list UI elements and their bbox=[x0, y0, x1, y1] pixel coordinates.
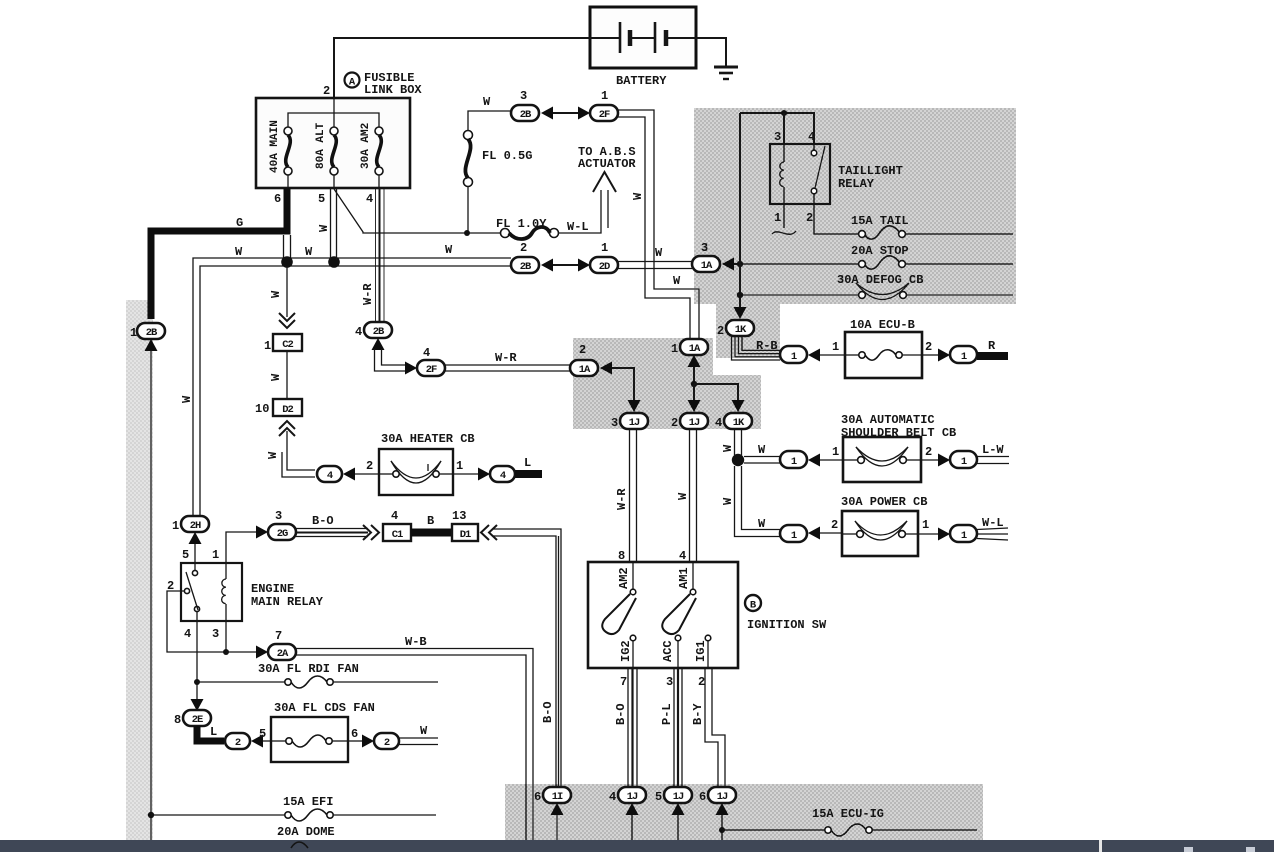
svg-text:2G: 2G bbox=[277, 528, 288, 540]
svg-text:4: 4 bbox=[391, 509, 398, 523]
wire: pin 4 triple down to connector 2B bbox=[376, 188, 385, 322]
wire between 2B(2) and 2D(1) bbox=[553, 264, 578, 266]
connector 1J (5) bbox=[655, 787, 692, 804]
wire: relay pin 3 down to 2A row bbox=[225, 621, 227, 652]
svg-text:1: 1 bbox=[832, 340, 839, 354]
svg-text:2: 2 bbox=[323, 84, 330, 98]
wire pair: 1K(4) down to shoulder-belt node bbox=[734, 429, 736, 455]
connector 1 (power CB right) bbox=[950, 525, 977, 542]
fusible link 40A MAIN bbox=[269, 120, 292, 188]
heater CB element bbox=[379, 461, 453, 483]
svg-text:4: 4 bbox=[184, 627, 191, 641]
arrow right into connector 2 bbox=[362, 735, 374, 748]
arrow left into connector 1A(2) bbox=[600, 362, 612, 375]
fusible link box A bbox=[256, 98, 410, 188]
svg-text:2: 2 bbox=[579, 343, 586, 357]
svg-text:IG2: IG2 bbox=[619, 640, 633, 662]
svg-text:4: 4 bbox=[500, 470, 506, 482]
ignition sw ACC terminal bbox=[661, 635, 681, 668]
svg-text:2: 2 bbox=[698, 675, 705, 689]
svg-text:1: 1 bbox=[961, 456, 967, 468]
svg-text:1: 1 bbox=[172, 519, 179, 533]
svg-text:W: W bbox=[269, 290, 283, 298]
wire: arrow to CDS fan box bbox=[263, 740, 271, 742]
toolbar glyph fragment 2 bbox=[1246, 847, 1255, 852]
engine main relay coil bbox=[222, 563, 226, 621]
node: W bus junction to pin 5 branch bbox=[328, 256, 340, 268]
wire B-Y: IG1 pin 2 down with jog to 1J(6) bbox=[705, 668, 718, 787]
arrow left into connector 4 bbox=[343, 468, 355, 481]
fusible link FL 1.0Y bbox=[501, 227, 559, 239]
fusible link 80A ALT bbox=[315, 122, 338, 188]
wire: arrow to ECU-B box bbox=[820, 354, 845, 356]
svg-text:30A AUTOMATIC: 30A AUTOMATIC bbox=[841, 413, 935, 427]
connector 2H (1) bbox=[172, 516, 209, 533]
arrow left into 1A(3) bbox=[722, 258, 734, 271]
wire G: thick wire from pin 6 to connector 2B bbox=[151, 188, 287, 319]
wire: D1 to B-O vertical (pair) down to 1I bbox=[493, 529, 561, 786]
wire: box to right arrow (power CB) bbox=[918, 533, 938, 535]
30A HEATER CB box bbox=[379, 449, 453, 495]
wire: relay pin 2 to 15A TAIL fuse bbox=[814, 204, 859, 234]
svg-text:3: 3 bbox=[701, 241, 708, 255]
svg-text:3: 3 bbox=[212, 627, 219, 641]
svg-text:1: 1 bbox=[456, 459, 463, 473]
svg-text:3: 3 bbox=[666, 675, 673, 689]
wire: box to right arrow (shoulder belt) bbox=[921, 459, 938, 461]
wire below 1I to bar bbox=[556, 815, 558, 840]
ignition switch box B bbox=[588, 562, 738, 668]
svg-text:1: 1 bbox=[264, 339, 271, 353]
circled B marker bbox=[745, 595, 761, 612]
svg-text:ENGINE: ENGINE bbox=[251, 582, 294, 596]
connector 2 (CDS fan left) bbox=[225, 733, 250, 749]
svg-text:TAILLIGHT: TAILLIGHT bbox=[838, 164, 903, 178]
svg-text:B-O: B-O bbox=[312, 514, 334, 528]
arrow right into 2F(1) bbox=[578, 107, 590, 120]
connector 2A (7) bbox=[268, 629, 296, 660]
svg-text:L: L bbox=[210, 725, 217, 739]
connector C2 (1) bbox=[264, 334, 302, 353]
svg-text:2: 2 bbox=[806, 211, 813, 225]
wire pair: D2 down and right to heater CB connector 4 bbox=[287, 431, 315, 470]
svg-text:SHOULDER BELT CB: SHOULDER BELT CB bbox=[841, 426, 956, 440]
breaker element (power CB) bbox=[842, 521, 918, 540]
svg-text:40A MAIN: 40A MAIN bbox=[269, 120, 281, 173]
ground (battery negative) bbox=[714, 67, 738, 79]
svg-text:1A: 1A bbox=[579, 364, 591, 376]
svg-text:5: 5 bbox=[318, 192, 325, 206]
arrow left into connector 1 (power CB) bbox=[808, 527, 820, 540]
connector 2B (2) bbox=[511, 241, 539, 273]
svg-text:80A ALT: 80A ALT bbox=[315, 122, 327, 169]
wire battery positive to ground drop bbox=[696, 38, 726, 67]
svg-text:1J: 1J bbox=[689, 417, 700, 429]
connector 2F (1) bbox=[590, 89, 618, 121]
engine main relay switch contacts bbox=[181, 563, 200, 621]
svg-text:8: 8 bbox=[174, 713, 181, 727]
svg-text:2F: 2F bbox=[426, 364, 437, 376]
svg-text:2: 2 bbox=[366, 459, 373, 473]
connector 2 (CDS fan right) bbox=[374, 733, 399, 749]
svg-text:1: 1 bbox=[212, 548, 219, 562]
connector C1 (4) bbox=[383, 509, 411, 541]
svg-text:R: R bbox=[988, 339, 996, 353]
svg-text:2: 2 bbox=[831, 518, 838, 532]
connector D2 (10) bbox=[255, 399, 302, 416]
svg-text:W-R: W-R bbox=[361, 283, 375, 305]
arrow up into connector 2B bbox=[145, 339, 158, 351]
connector 2D (1) bbox=[590, 241, 618, 273]
shaded region: bottom connector strip bbox=[505, 784, 983, 840]
arrow up into 1J(5) bbox=[672, 803, 685, 815]
svg-text:W: W bbox=[269, 373, 283, 381]
wire: relay top bus bbox=[740, 113, 814, 144]
wire W: pair right of CDS connector bbox=[399, 737, 438, 739]
svg-text:4: 4 bbox=[366, 192, 373, 206]
wire below 1J(4) to bar bbox=[631, 815, 633, 840]
connector 1 (shoulder belt left) bbox=[780, 451, 807, 468]
svg-text:1: 1 bbox=[130, 326, 137, 340]
wire: pin 5 pair down to W bus bbox=[330, 188, 332, 260]
svg-text:2B: 2B bbox=[520, 261, 532, 273]
svg-text:W: W bbox=[758, 517, 766, 531]
wire R: thick stub bbox=[977, 352, 1008, 360]
toolbar glyph fragment 1 bbox=[1184, 847, 1193, 852]
svg-text:W: W bbox=[420, 724, 428, 738]
svg-text:A: A bbox=[349, 77, 356, 89]
arrow up into connector 2H bbox=[189, 532, 202, 544]
fuse 20A STOP bbox=[859, 256, 1013, 269]
svg-text:AM2: AM2 bbox=[617, 567, 631, 589]
wire W-L: three lines stub right bbox=[977, 528, 1008, 530]
arrow right into connector 1 (shoulder belt right) bbox=[938, 454, 950, 467]
svg-text:2: 2 bbox=[235, 737, 241, 749]
svg-text:1K: 1K bbox=[733, 417, 745, 429]
svg-text:W: W bbox=[631, 192, 645, 200]
svg-text:FL 1.0Y: FL 1.0Y bbox=[496, 217, 547, 231]
connector 1K (2) bbox=[717, 320, 754, 338]
svg-text:2B: 2B bbox=[373, 326, 385, 338]
wire pair: node down to power CB elbow bbox=[735, 466, 781, 537]
arrow down into connector 1K(4) bbox=[732, 400, 745, 412]
svg-text:15A TAIL: 15A TAIL bbox=[851, 214, 909, 228]
svg-text:1K: 1K bbox=[735, 324, 747, 336]
svg-text:B-O: B-O bbox=[541, 701, 555, 723]
svg-text:G: G bbox=[236, 216, 243, 230]
wire: branch down to relay pin 3 bbox=[783, 113, 785, 144]
svg-text:1: 1 bbox=[832, 445, 839, 459]
svg-text:2A: 2A bbox=[277, 648, 289, 660]
svg-text:AM1: AM1 bbox=[677, 567, 691, 589]
wire: relay pin 5 up to 2H bbox=[194, 544, 196, 563]
connector 2G (3) bbox=[268, 509, 296, 540]
svg-text:W: W bbox=[266, 451, 280, 459]
wire B-O: IG2 pin 7 down to 1J(4) bbox=[628, 668, 637, 786]
30A FL CDS FAN box bbox=[271, 717, 348, 762]
connector 2B (1) left bbox=[130, 323, 165, 340]
svg-text:W: W bbox=[235, 245, 243, 259]
wire: W bus lower line bbox=[200, 266, 511, 517]
wire: relay pin 1 to connector 2G bbox=[226, 532, 256, 563]
wire: 15A EFI row bbox=[151, 809, 436, 821]
svg-text:30A FL RDI FAN: 30A FL RDI FAN bbox=[258, 662, 359, 676]
svg-text:20A STOP: 20A STOP bbox=[851, 244, 909, 258]
wire: top W link to connector 2B(3) bbox=[468, 111, 511, 130]
node: relay top bus / coil branch bbox=[781, 110, 787, 116]
wire R-B: 1K(2) bundle to connector 1 (ECU-B feed) bbox=[732, 336, 781, 360]
svg-text:4: 4 bbox=[355, 325, 362, 339]
connector 2E (8) bbox=[174, 710, 211, 727]
wire: link from thick G elbow down to W bus junction bbox=[283, 235, 285, 258]
battery internal symbol plates bbox=[590, 22, 696, 53]
arrow left into 2B(2) bbox=[541, 259, 553, 272]
svg-text:4: 4 bbox=[808, 130, 815, 144]
connector 1A (3) bbox=[692, 241, 720, 272]
svg-text:1: 1 bbox=[961, 530, 967, 542]
node: junction of left vertical with 15A EFI row bbox=[148, 812, 154, 818]
wire: 2A row from relay junction to arrow bbox=[226, 651, 256, 653]
svg-text:7: 7 bbox=[275, 629, 282, 643]
svg-text:W: W bbox=[758, 443, 766, 457]
svg-text:5: 5 bbox=[259, 727, 266, 741]
svg-text:6: 6 bbox=[534, 790, 541, 804]
svg-text:3: 3 bbox=[520, 89, 527, 103]
wire W pair: 1J(2) down to ignition AM1 pin 4 bbox=[689, 429, 691, 562]
wire: ECU-B box to right arrow bbox=[922, 354, 938, 356]
arrow up into 1J(4) bbox=[626, 803, 639, 815]
svg-text:1: 1 bbox=[774, 211, 781, 225]
arrow left into connector 1 bbox=[808, 349, 820, 362]
taillight relay coil bbox=[780, 144, 784, 204]
arrow right into connector 4 bbox=[478, 468, 490, 481]
svg-text:2: 2 bbox=[925, 445, 932, 459]
shaded region: tab below taillight block around 1K bbox=[716, 304, 780, 358]
svg-text:30A AM2: 30A AM2 bbox=[360, 123, 372, 169]
svg-text:D1: D1 bbox=[460, 529, 471, 541]
svg-text:3: 3 bbox=[275, 509, 282, 523]
arrow right into connector 2F(4) bbox=[405, 362, 417, 375]
wire W-R pair: 2F(4) to 1A(2) bbox=[445, 364, 570, 366]
svg-text:4: 4 bbox=[609, 790, 616, 804]
chevrons into C1 bbox=[363, 525, 379, 540]
svg-text:15A ECU-IG: 15A ECU-IG bbox=[812, 807, 884, 821]
arrow left into connector 2 bbox=[251, 735, 263, 748]
svg-text:W: W bbox=[721, 497, 735, 505]
fusible link box internal bus bbox=[288, 113, 379, 130]
svg-text:30A HEATER CB: 30A HEATER CB bbox=[381, 432, 475, 446]
wire W-B: 2A to right then down page (pair) bbox=[296, 649, 533, 841]
wire: heater CB to right connector 4 bbox=[453, 473, 478, 475]
circled A marker bbox=[345, 73, 360, 89]
wire B: thick black C1 to D1 bbox=[411, 529, 452, 537]
svg-text:2: 2 bbox=[717, 324, 724, 338]
wire: arrow to shoulder belt CB box bbox=[820, 459, 843, 461]
30A POWER CB box bbox=[842, 511, 918, 556]
bottom toolbar bar bbox=[0, 840, 1274, 852]
connector 2B (4) bbox=[355, 322, 392, 339]
wire below 1J(6) to ECU-IG junction bbox=[721, 815, 723, 840]
svg-text:B: B bbox=[750, 600, 757, 612]
svg-text:1: 1 bbox=[671, 342, 678, 356]
ignition sw IG2 terminal bbox=[619, 635, 636, 668]
svg-text:P-L: P-L bbox=[660, 703, 674, 725]
svg-text:W: W bbox=[673, 274, 681, 288]
toolbar divider bbox=[1099, 840, 1102, 852]
connector D1 (13) bbox=[452, 509, 478, 541]
svg-text:R-B: R-B bbox=[756, 339, 778, 353]
svg-text:1: 1 bbox=[791, 456, 797, 468]
arrow down into connector 1J(2) bbox=[688, 400, 701, 412]
svg-text:B-Y: B-Y bbox=[691, 703, 705, 725]
svg-text:W-R: W-R bbox=[495, 351, 517, 365]
svg-text:L-W: L-W bbox=[982, 443, 1004, 457]
shaded region: taillight relay / fuse block (top right) bbox=[694, 108, 1016, 304]
wire: 30A FL RDI FAN row bbox=[197, 676, 438, 688]
svg-text:13: 13 bbox=[452, 509, 466, 523]
arrow right into connector 1 (ECU-B right) bbox=[938, 349, 950, 362]
svg-text:W-L: W-L bbox=[982, 516, 1004, 530]
arrow down into connector 2E bbox=[191, 699, 204, 711]
engine main relay box bbox=[181, 563, 242, 621]
arrow down into connector 1J(3) bbox=[628, 400, 641, 412]
arrow up into 1I(6) bbox=[551, 803, 564, 815]
svg-text:10A ECU-B: 10A ECU-B bbox=[850, 318, 915, 332]
svg-text:15A EFI: 15A EFI bbox=[283, 795, 333, 809]
wire pair: 2B(4) elbow to 2F(4) bbox=[375, 349, 406, 371]
wire battery to fusible link box pin 2 bbox=[334, 38, 590, 98]
svg-text:4: 4 bbox=[715, 416, 722, 430]
wire: relay pin 4 down through RDI FAN row to 2E bbox=[196, 621, 198, 701]
wire: diagonal from pin 5 to FL 1.0Y row bbox=[334, 189, 500, 233]
svg-text:FL 0.5G: FL 0.5G bbox=[482, 149, 532, 163]
node: ECU-IG row junction bbox=[719, 827, 725, 833]
node: junction pin4 wire / RDI FAN row bbox=[194, 679, 200, 685]
svg-text:10: 10 bbox=[255, 402, 269, 416]
svg-text:ACC: ACC bbox=[661, 640, 675, 662]
connector 1I (6) bbox=[534, 787, 571, 804]
30A AUTOMATIC SHOULDER BELT CB box bbox=[843, 437, 921, 482]
svg-text:2: 2 bbox=[671, 416, 678, 430]
fusible link FL 0.5G bbox=[464, 131, 473, 187]
svg-text:W: W bbox=[305, 245, 313, 259]
node: W bus junction to C2 branch bbox=[281, 256, 293, 268]
svg-text:5: 5 bbox=[655, 790, 662, 804]
node: junction pin3 / 2A row bbox=[223, 649, 229, 655]
wire: relay pin 2 loop to 2A row bbox=[167, 591, 226, 652]
wire: C2 to D2 bbox=[286, 351, 288, 399]
svg-text:1: 1 bbox=[601, 89, 608, 103]
connector 1 (ECU-B right) bbox=[950, 346, 977, 363]
CDS fan fuse element bbox=[271, 735, 348, 747]
battery U? : BATTERY box bbox=[590, 7, 696, 68]
svg-text:6: 6 bbox=[274, 192, 281, 206]
svg-text:L: L bbox=[524, 456, 531, 470]
arrow right into connector 2G bbox=[256, 526, 268, 539]
svg-text:1: 1 bbox=[791, 530, 797, 542]
wire L-W pair: stub right bbox=[977, 456, 1009, 458]
svg-text:30A FL CDS FAN: 30A FL CDS FAN bbox=[274, 701, 375, 715]
connector 1 (ECU-B left) bbox=[780, 346, 807, 363]
connector 1 (shoulder belt right) bbox=[950, 451, 977, 468]
wire: CDS box to right connector 2 bbox=[348, 740, 362, 742]
svg-text:2: 2 bbox=[925, 340, 932, 354]
connector 1K (4) bbox=[715, 413, 752, 430]
arrow up into 1J(6) bbox=[716, 803, 729, 815]
connector 1 (power CB left) bbox=[780, 525, 807, 542]
svg-text:B: B bbox=[427, 514, 434, 528]
svg-text:W: W bbox=[721, 444, 735, 452]
svg-text:W-B: W-B bbox=[405, 635, 427, 649]
svg-text:6: 6 bbox=[699, 790, 706, 804]
svg-text:1J: 1J bbox=[717, 791, 728, 803]
ignition sw IG1 terminal bbox=[694, 635, 711, 668]
arrow left into 2B(3) bbox=[541, 107, 553, 120]
svg-text:W: W bbox=[317, 224, 331, 232]
fuse element ECU-B bbox=[845, 350, 922, 361]
svg-text:IGNITION SW: IGNITION SW bbox=[747, 618, 827, 632]
svg-text:2E: 2E bbox=[192, 714, 203, 726]
arrow right into connector 2A bbox=[256, 646, 268, 659]
ignition sw AM1 terminal and blade bbox=[662, 562, 696, 634]
svg-text:4: 4 bbox=[423, 346, 430, 360]
svg-text:1J: 1J bbox=[629, 417, 640, 429]
svg-text:2H: 2H bbox=[190, 520, 201, 532]
wire: W branch from bus down to C2 bbox=[286, 266, 288, 317]
svg-text:RELAY: RELAY bbox=[838, 177, 875, 191]
svg-text:3: 3 bbox=[611, 416, 618, 430]
taillight relay box bbox=[770, 144, 830, 204]
svg-text:1: 1 bbox=[601, 241, 608, 255]
wire: 1A(1) down to cluster node bbox=[693, 367, 695, 384]
wire W-L: FL 1.0Y to ABS actuator arrow bbox=[558, 190, 601, 233]
svg-text:5: 5 bbox=[182, 548, 189, 562]
connector 1J (2) bbox=[671, 413, 708, 430]
arrow right into 2D(1) bbox=[578, 259, 590, 272]
svg-text:2D: 2D bbox=[599, 261, 610, 273]
wire below 1J(5) to bar bbox=[677, 815, 679, 840]
node: junction FL0.5G / row bbox=[464, 230, 470, 236]
chevrons out of D1 bbox=[481, 525, 497, 540]
svg-text:7: 7 bbox=[620, 675, 627, 689]
svg-text:1J: 1J bbox=[673, 791, 684, 803]
breaker 30A DEFOG CB bbox=[856, 283, 1013, 300]
arrow (open) to A.B.S actuator bbox=[593, 172, 616, 192]
svg-text:W: W bbox=[676, 492, 690, 500]
wire: 30A DEFOG CB row bbox=[743, 294, 859, 296]
wire: relay pin 1 stub with squiggle end bbox=[772, 204, 796, 234]
svg-text:30A POWER CB: 30A POWER CB bbox=[841, 495, 927, 509]
shaded region: middle connector cluster 1A/1J/1K bbox=[573, 338, 761, 429]
svg-text:1J: 1J bbox=[627, 791, 638, 803]
svg-text:1: 1 bbox=[922, 518, 929, 532]
connector 4 (heater CB right) bbox=[490, 466, 515, 482]
connector 1J (3) bbox=[611, 413, 648, 430]
svg-text:BATTERY: BATTERY bbox=[616, 74, 667, 88]
node: taillight vertical / DEFOG row bbox=[737, 292, 743, 298]
wire: 20A STOP row bbox=[743, 263, 859, 265]
node: shoulder belt CB feed junction bbox=[732, 454, 744, 466]
arrow up into connector 2B(4) bbox=[372, 338, 385, 350]
chevrons up out of D2 bbox=[279, 421, 295, 436]
connector 1A (2) bbox=[570, 343, 598, 376]
svg-text:1A: 1A bbox=[701, 260, 713, 272]
wire pair: 2F(1) down with jog to 1A(1) bbox=[618, 110, 699, 339]
wire W pair: node to connector 1 (shoulder belt) bbox=[744, 456, 780, 458]
wire: arrow to power CB box bbox=[820, 532, 842, 534]
wire: FL 0.5G down to FL 1.0Y row bbox=[467, 186, 469, 233]
breaker element (shoulder belt) bbox=[843, 447, 921, 466]
